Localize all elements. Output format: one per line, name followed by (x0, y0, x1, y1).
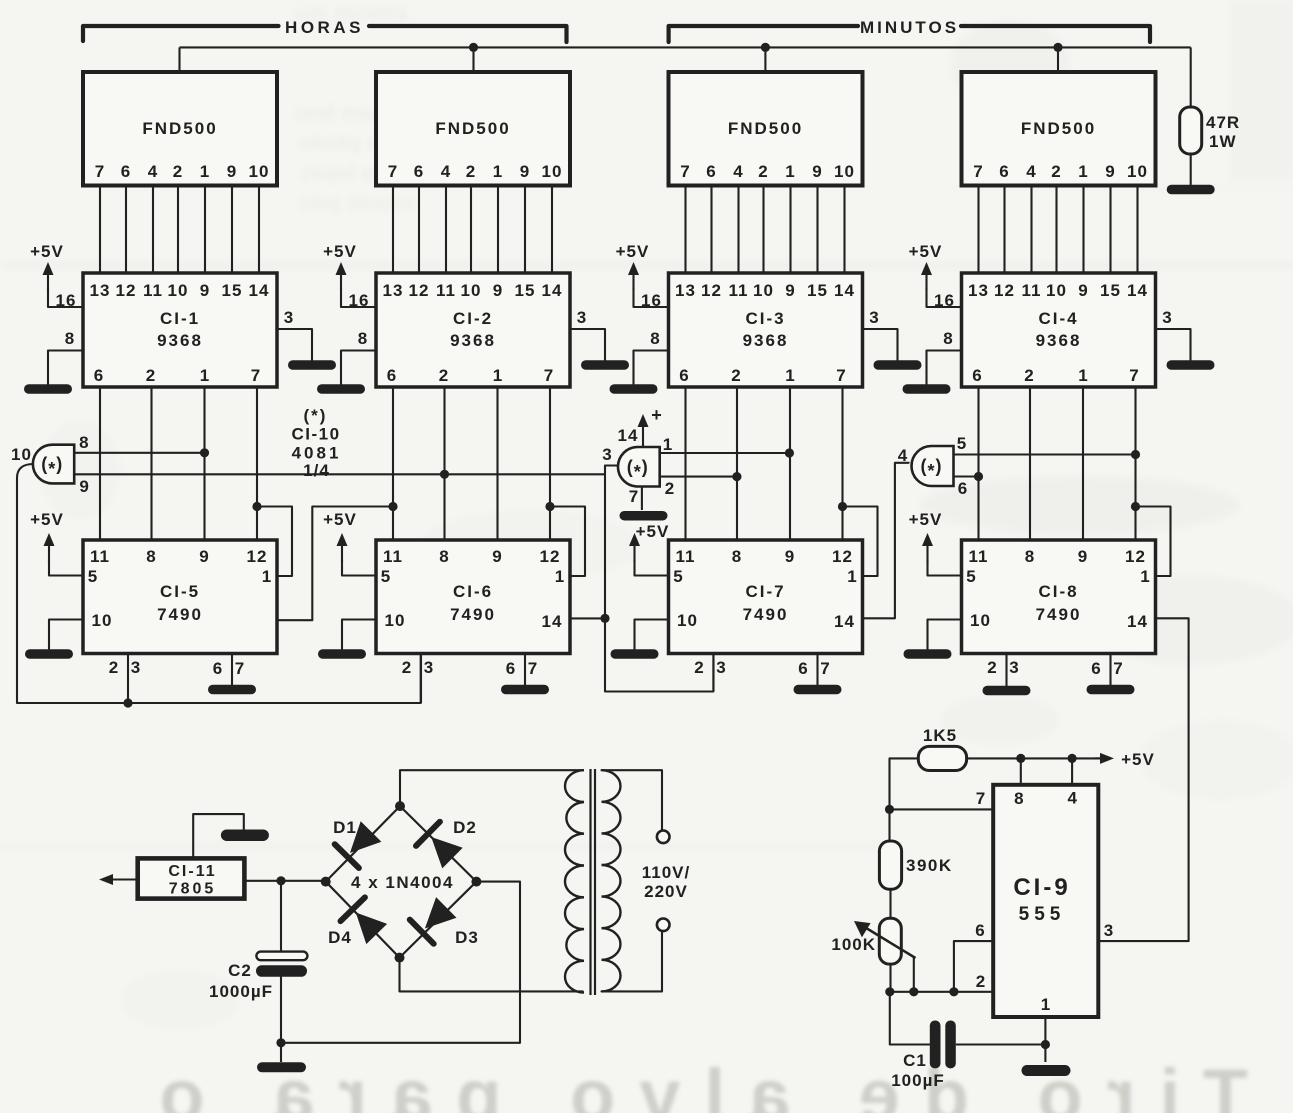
counter CI-6 7490 (376, 540, 570, 654)
CI-5 pin 12 to pin 1 loop (252, 502, 261, 511)
svg-text:9: 9 (227, 162, 237, 181)
svg-text:9: 9 (1078, 547, 1088, 566)
wire 390K to 100K (889, 889, 891, 918)
display FND500 #3 (669, 72, 863, 186)
svg-text:11: 11 (1022, 281, 1042, 300)
svg-text:8: 8 (943, 329, 953, 348)
node ground bus (276, 1038, 285, 1047)
svg-text:CI-7: CI-7 (745, 582, 785, 601)
svg-text:6: 6 (972, 366, 982, 385)
svg-text:+5V: +5V (616, 242, 650, 261)
CI-6 pins 6,7 wire to ground (524, 654, 526, 686)
svg-text:4: 4 (148, 162, 158, 181)
svg-text:CI-5: CI-5 (160, 582, 200, 601)
wire drop to FND500 display 1 (178, 47, 180, 72)
CI-4 pin 3 wire to ground (1156, 329, 1191, 360)
CI-7 pin 5 wire to +5V (635, 560, 669, 576)
diode D1 (350, 821, 381, 853)
svg-text:11: 11 (436, 281, 456, 300)
CI-4 pin 16 wire to +5V (927, 288, 962, 307)
svg-text:1: 1 (1140, 567, 1150, 586)
resistor 1K5 (918, 746, 966, 770)
svg-text:15: 15 (1100, 281, 1121, 300)
svg-text:555: 555 (1019, 904, 1066, 925)
svg-text:4: 4 (441, 162, 451, 181)
counter CI-8 7490 (962, 540, 1156, 654)
svg-text:10: 10 (168, 281, 189, 300)
svg-text:9: 9 (200, 281, 210, 300)
svg-text:8: 8 (358, 329, 368, 348)
CI-1 pin 3 wire to ground (277, 329, 312, 360)
svg-text:14: 14 (834, 281, 855, 300)
svg-text:9: 9 (1105, 162, 1115, 181)
svg-text:1W: 1W (1209, 132, 1237, 151)
svg-text:C2: C2 (228, 961, 252, 980)
wire 47R to ground (1190, 154, 1192, 185)
node gate B output / CI-6 pin 14 (600, 614, 609, 623)
svg-text:13: 13 (968, 281, 989, 300)
svg-text:14: 14 (834, 612, 855, 631)
svg-text:8: 8 (439, 547, 449, 566)
CI-8 pins 6,7 wire to ground (1109, 654, 1111, 686)
svg-text:2: 2 (109, 658, 119, 677)
svg-text:390K: 390K (906, 856, 953, 875)
svg-text:3: 3 (1104, 921, 1114, 940)
bracket label MINUTOS (669, 26, 858, 42)
svg-text:+5V: +5V (323, 510, 357, 529)
wires CI-4 to CI-8 (BCD lines) (977, 387, 979, 540)
svg-text:HORAS: HORAS (285, 18, 364, 37)
svg-text:11: 11 (729, 281, 749, 300)
node pin 6 junction (949, 987, 958, 996)
ground below 555 pin 1 (1022, 1065, 1071, 1076)
wire ground bus to bridge right (281, 1042, 520, 1044)
AND gate CI-10a (hours reset) (33, 445, 74, 484)
svg-text:9: 9 (520, 162, 530, 181)
svg-text:2: 2 (976, 972, 986, 991)
resistor 390K (879, 841, 901, 889)
svg-text:9368: 9368 (1036, 331, 1082, 350)
svg-text:4081: 4081 (292, 444, 342, 463)
svg-text:1: 1 (493, 162, 503, 181)
svg-text:9368: 9368 (743, 331, 789, 350)
ground bar below C2 (257, 1062, 306, 1072)
wire C2 to ground bus (280, 977, 282, 1063)
svg-text:C1: C1 (903, 1051, 927, 1070)
svg-text:11: 11 (90, 547, 110, 566)
svg-text:9368: 9368 (157, 331, 203, 350)
wires FND500 #1 to CI-1 (99, 188, 101, 274)
decoder CI-4 9368 (962, 273, 1156, 387)
svg-text:CI-11: CI-11 (168, 863, 216, 880)
svg-text:7490: 7490 (450, 605, 496, 624)
svg-text:9: 9 (492, 547, 502, 566)
faint mirrored print-through headline at bottom (135, 1054, 1248, 1113)
svg-text:1: 1 (262, 567, 272, 586)
svg-text:3: 3 (577, 308, 587, 327)
decoder CI-3 9368 (669, 273, 863, 387)
svg-text:9: 9 (79, 477, 89, 496)
gate A input pin 8 wire (74, 452, 204, 454)
AND gate CI-10c (minutes carry) (912, 446, 954, 486)
svg-text:2: 2 (694, 658, 704, 677)
decoder CI-1 9368 (83, 273, 277, 387)
svg-text:1: 1 (200, 162, 210, 181)
wire primary bottom terminal (602, 931, 663, 991)
node on CI-6 pin 11 column (388, 502, 397, 511)
svg-text:7: 7 (1113, 659, 1123, 678)
svg-text:10: 10 (834, 162, 855, 181)
display FND500 #2 (376, 72, 570, 186)
ground bar of 7805 tab (221, 829, 269, 841)
svg-text:3: 3 (1009, 658, 1019, 677)
wire bridge bottom to transformer (400, 958, 583, 992)
svg-text:2: 2 (1051, 162, 1061, 181)
svg-text:10: 10 (249, 162, 270, 181)
diode D4 (356, 913, 387, 945)
svg-text:7: 7 (1129, 366, 1139, 385)
svg-text:12: 12 (701, 281, 722, 300)
svg-text:15: 15 (222, 281, 243, 300)
svg-text:2: 2 (665, 479, 675, 498)
svg-text:7: 7 (544, 366, 554, 385)
svg-text:9: 9 (199, 547, 209, 566)
svg-text:5: 5 (381, 567, 391, 586)
svg-text:6: 6 (121, 162, 131, 181)
node gate C pin 5 to CI-8 pin 12 column (1131, 450, 1140, 459)
gate B input pin 1 wire (660, 452, 790, 454)
svg-text:1/4: 1/4 (303, 461, 330, 480)
svg-text:15: 15 (515, 281, 536, 300)
svg-text:7: 7 (95, 162, 105, 181)
wire 1K5 to 390K and pin 7 (890, 758, 919, 841)
svg-text:1: 1 (1078, 366, 1088, 385)
svg-text:100µF: 100µF (891, 1071, 945, 1090)
svg-text:FND500: FND500 (1021, 119, 1096, 138)
svg-text:16: 16 (934, 291, 955, 310)
svg-text:10: 10 (542, 162, 563, 181)
node gate B pin 2 to CI-7 pin 8 column (732, 472, 741, 481)
svg-text:14: 14 (542, 612, 563, 631)
CI-1 pin 8 wire to ground (48, 351, 83, 385)
svg-text:1K5: 1K5 (923, 726, 957, 745)
svg-text:47R: 47R (1206, 113, 1240, 132)
svg-text:7: 7 (836, 366, 846, 385)
svg-text:CI-3: CI-3 (745, 309, 785, 328)
svg-text:MINUTOS: MINUTOS (860, 18, 959, 37)
svg-text:10: 10 (1127, 162, 1148, 181)
svg-text:7805: 7805 (169, 881, 217, 898)
svg-text:14: 14 (618, 426, 639, 445)
svg-text:+5V: +5V (909, 510, 943, 529)
CI-5 pins 2,3 wire (127, 654, 129, 704)
svg-text:1: 1 (785, 366, 795, 385)
arrow +5V output of 7805 (108, 878, 138, 880)
svg-text:1: 1 (847, 567, 857, 586)
node 100K bottom (885, 987, 894, 996)
svg-text:6: 6 (679, 366, 689, 385)
CI-3 pin 3 wire to ground (863, 329, 898, 360)
ground below 47R (1167, 185, 1215, 195)
ground below CI-8 pins 2,3 (983, 686, 1031, 696)
wires CI-3 to CI-7 (BCD lines) (684, 387, 686, 540)
svg-text:4 x 1N4004: 4 x 1N4004 (351, 873, 454, 892)
svg-text:10: 10 (1046, 281, 1067, 300)
node gate C pin 6 to CI-8 pin 11 column (974, 472, 983, 481)
svg-text:220V: 220V (644, 882, 688, 901)
svg-text:6: 6 (506, 659, 516, 678)
svg-text:6: 6 (213, 659, 223, 678)
svg-text:10: 10 (970, 611, 991, 630)
svg-text:13: 13 (383, 281, 404, 300)
svg-text:11: 11 (969, 547, 989, 566)
svg-text:6: 6 (975, 921, 985, 940)
resistor 47R 1W (1180, 107, 1202, 154)
node C2 branch (276, 876, 285, 885)
svg-text:D3: D3 (455, 928, 479, 947)
svg-text:12: 12 (247, 547, 268, 566)
svg-text:9: 9 (493, 281, 503, 300)
svg-text:6: 6 (94, 366, 104, 385)
svg-text:16: 16 (56, 291, 77, 310)
svg-text:6: 6 (1091, 659, 1101, 678)
CI-5 pins 6,7 wire to ground (231, 654, 233, 686)
svg-text:CI-10: CI-10 (291, 425, 340, 444)
node junction on bus / display 4 (1053, 43, 1062, 52)
svg-text:6: 6 (798, 659, 808, 678)
CI-7 pins 2,3 wire (712, 654, 714, 692)
wires FND500 #3 to CI-3 (684, 188, 686, 274)
svg-text:+5V: +5V (323, 242, 357, 261)
svg-text:+5V: +5V (30, 242, 64, 261)
svg-text:11: 11 (676, 547, 696, 566)
wire 100K bottom (889, 964, 891, 992)
svg-text:3: 3 (1162, 308, 1172, 327)
svg-text:5: 5 (966, 567, 976, 586)
svg-text:1: 1 (493, 366, 503, 385)
svg-text:7: 7 (235, 659, 245, 678)
svg-text:FND500: FND500 (728, 119, 803, 138)
svg-text:7: 7 (251, 366, 261, 385)
bridge rectifier frame (326, 806, 477, 958)
wires FND500 #2 to CI-2 (392, 188, 394, 274)
CI-5 pin 10 wire to ground (49, 620, 83, 650)
potentiometer 100K (879, 918, 901, 964)
svg-text:CI-6: CI-6 (453, 582, 493, 601)
svg-text:12: 12 (116, 281, 137, 300)
svg-text:8: 8 (732, 547, 742, 566)
CI-3 pin 8 wire to ground (634, 351, 669, 385)
terminal circle bottom (657, 919, 670, 932)
svg-text:CI-2: CI-2 (453, 309, 493, 328)
svg-text:9368: 9368 (450, 331, 496, 350)
svg-text:7490: 7490 (743, 605, 789, 624)
CI-6 pin 10 wire to ground (342, 620, 376, 650)
CI-7 pin 12 to pin 1 loop (838, 502, 847, 511)
CI-1 pin 16 wire to +5V (48, 288, 83, 307)
svg-text:12: 12 (409, 281, 430, 300)
gate C input pin 5 wire (954, 453, 1136, 455)
CI-8 pin 5 wire to +5V (928, 560, 962, 576)
wire pin 6 (954, 941, 993, 992)
wire top display supply bus (180, 46, 1191, 48)
gate C input pin 6 wire (954, 475, 979, 477)
svg-text:10: 10 (92, 611, 113, 630)
gate B output pin 3 wire to CI-7 reset (605, 466, 713, 692)
wire to CI-6 pin 14 (570, 617, 605, 619)
transformer core (589, 769, 591, 995)
svg-text:1: 1 (555, 567, 565, 586)
svg-text:D1: D1 (333, 818, 357, 837)
svg-text:10: 10 (753, 281, 774, 300)
node junction on bus / display 2 (469, 43, 478, 52)
counter CI-5 7490 (83, 540, 277, 654)
svg-text:1: 1 (785, 162, 795, 181)
svg-text:5: 5 (88, 567, 98, 586)
svg-text:+5V: +5V (909, 242, 943, 261)
svg-text:9: 9 (812, 162, 822, 181)
svg-text:10: 10 (11, 445, 32, 464)
node gate A pin 8 to CI-1 pin 1 column (200, 448, 209, 457)
node wiper junction (909, 987, 918, 996)
timer CI-9 555 (993, 785, 1098, 1017)
wire pin 1 down (1044, 1017, 1046, 1062)
svg-text:12: 12 (832, 547, 853, 566)
svg-text:7: 7 (388, 162, 398, 181)
svg-text:6: 6 (999, 162, 1009, 181)
svg-text:2: 2 (146, 366, 156, 385)
bracket label HORAS (83, 26, 279, 41)
wires CI-1 to CI-5 (BCD lines) (99, 387, 101, 540)
node reset bus / CI-5 pins 2,3 (123, 698, 132, 707)
svg-text:8: 8 (1014, 789, 1024, 808)
svg-text:7: 7 (629, 487, 639, 506)
node pin 1 ground junction (1041, 1040, 1050, 1049)
svg-text:110V/: 110V/ (642, 863, 691, 882)
svg-text:2: 2 (402, 658, 412, 677)
svg-text:8: 8 (1025, 547, 1035, 566)
wire CI-6 pin 11 to CI-5 pin 14 (277, 507, 393, 621)
diode D3 (425, 897, 457, 928)
decoder CI-2 9368 (376, 273, 570, 387)
gate A input pin 9 wire (74, 473, 605, 475)
CI-3 pin 16 wire to +5V (634, 288, 669, 307)
wires FND500 #4 to CI-4 (977, 188, 979, 274)
svg-text:7: 7 (820, 659, 830, 678)
gate B pin 14 +V arrow (642, 423, 644, 447)
svg-text:10: 10 (385, 611, 406, 630)
node junction on bus / display 3 (761, 43, 770, 52)
CI-8 pins 2,3 wire (1005, 654, 1007, 687)
svg-text:1: 1 (663, 435, 673, 454)
svg-text:7490: 7490 (1036, 605, 1082, 624)
svg-text:6: 6 (414, 162, 424, 181)
svg-text:2: 2 (731, 366, 741, 385)
svg-text:9: 9 (1078, 281, 1088, 300)
svg-text:15: 15 (807, 281, 828, 300)
svg-text:3: 3 (716, 658, 726, 677)
svg-text:(*): (*) (304, 406, 328, 425)
gate B pin 7 wire to ground (641, 487, 643, 511)
svg-text:2: 2 (466, 162, 476, 181)
CI-8 pin 12 to pin 1 loop (1131, 502, 1140, 511)
terminal circle top (657, 831, 670, 844)
svg-text:2: 2 (1024, 366, 1034, 385)
wire bridge right to ground bus (476, 882, 520, 1043)
svg-text:9: 9 (785, 547, 795, 566)
svg-text:3: 3 (284, 308, 294, 327)
wire primary top terminal (602, 770, 663, 830)
svg-text:1: 1 (200, 366, 210, 385)
svg-text:5: 5 (957, 434, 967, 453)
svg-text:7: 7 (680, 162, 690, 181)
node bridge right (471, 877, 481, 887)
svg-text:10: 10 (677, 611, 698, 630)
svg-text:14: 14 (1127, 612, 1148, 631)
svg-text:14: 14 (249, 281, 270, 300)
node gate A pin 9 to CI-6 pin 8 column (440, 470, 449, 479)
diode D2 (431, 837, 463, 868)
svg-text:CI-4: CI-4 (1038, 309, 1078, 328)
CI-7 pins 6,7 wire to ground (816, 654, 818, 686)
svg-text:8: 8 (79, 433, 89, 452)
gate B input pin 2 wire (660, 476, 737, 478)
wire 555 output to CI-8 pin 14 (1098, 618, 1188, 941)
capacitor C1 100uF (930, 1021, 941, 1069)
display FND500 #1 (83, 72, 277, 186)
node bridge bottom (395, 953, 405, 963)
svg-text:13: 13 (675, 281, 696, 300)
CI-6 pin 5 wire to +5V (342, 560, 376, 576)
svg-text:CI-9: CI-9 (1013, 874, 1070, 901)
wire bus to resistor 47R (1190, 47, 1192, 107)
svg-text:6: 6 (706, 162, 716, 181)
svg-text:2: 2 (439, 366, 449, 385)
CI-5 pin 5 wire to +5V (49, 560, 83, 576)
svg-text:16: 16 (349, 291, 370, 310)
CI-2 pin 3 wire to ground (570, 329, 605, 360)
CI-2 pin 16 wire to +5V (341, 288, 376, 307)
svg-text:3: 3 (602, 445, 612, 464)
svg-text:3: 3 (131, 658, 141, 677)
wire C1 to pin 1 (956, 1043, 1046, 1045)
svg-text:13: 13 (90, 281, 111, 300)
svg-text:1000µF: 1000µF (209, 982, 273, 1001)
CI-7 pin 10 wire to ground (635, 620, 669, 650)
svg-text:12: 12 (994, 281, 1015, 300)
svg-text:11: 11 (383, 547, 403, 566)
AND gate CI-10b (minutes-tens reset) (618, 447, 660, 487)
svg-text:8: 8 (146, 547, 156, 566)
svg-text:+5V: +5V (636, 522, 670, 541)
svg-text:7490: 7490 (157, 605, 203, 624)
svg-text:12: 12 (540, 547, 561, 566)
svg-text:+5V: +5V (30, 510, 64, 529)
svg-text:FND500: FND500 (435, 119, 510, 138)
svg-text:3: 3 (869, 308, 879, 327)
node bridge top (395, 801, 405, 811)
7805 ground tab wire (193, 814, 244, 858)
svg-text:100K: 100K (831, 935, 876, 954)
svg-text:D4: D4 (328, 928, 352, 947)
svg-text:+5V: +5V (1121, 750, 1155, 769)
svg-text:7: 7 (973, 162, 983, 181)
svg-text:9: 9 (785, 281, 795, 300)
svg-text:14: 14 (542, 281, 563, 300)
CI-8 pin 10 wire to ground (928, 620, 962, 650)
wire bridge top to transformer (400, 770, 583, 806)
svg-text:3: 3 (424, 658, 434, 677)
